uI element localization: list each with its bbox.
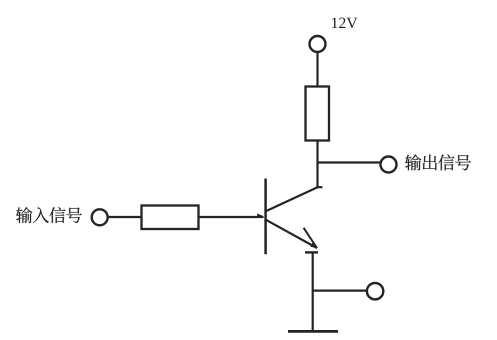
wire input terminal to R2 (108, 216, 142, 218)
transistor Q1 collector (diagonal) (266, 187, 318, 211)
terminal output (circle) (381, 157, 397, 173)
wire base arrowhead at bar (257, 214, 264, 217)
terminal emitter output (circle) (367, 283, 383, 299)
ground bar (288, 330, 338, 333)
transistor Q1 emitter (diagonal) (266, 220, 317, 248)
label output signal (Chinese: shu chu xin hao) (405, 154, 471, 170)
wire emitter junction to bottom terminal (313, 290, 367, 292)
transistor Q1 base bar (264, 179, 267, 255)
wire VCC to R1 top (316, 52, 318, 86)
wire R1 bottom to collector corner (316, 141, 318, 189)
wire collector corner tick (316, 186, 322, 188)
resistor R1 (collector load, vertical) (306, 87, 330, 141)
label input signal (Chinese: shu ru xin hao) (16, 207, 82, 223)
label 12V (supply voltage) (332, 18, 357, 29)
wire emitter vertical (312, 252, 314, 331)
terminal input (circle) (92, 209, 108, 225)
wire R2 to base (199, 216, 264, 218)
transistor Q1 emitter arrow barb (304, 228, 317, 248)
wire emitter top tick (305, 251, 318, 253)
node output junction / wire to output terminal (318, 161, 381, 163)
resistor R2 (base resistor, horizontal) (142, 206, 199, 230)
transistor Q1 emitter arrowhead (310, 242, 317, 248)
terminal VCC (12V supply terminal circle) (310, 36, 326, 52)
